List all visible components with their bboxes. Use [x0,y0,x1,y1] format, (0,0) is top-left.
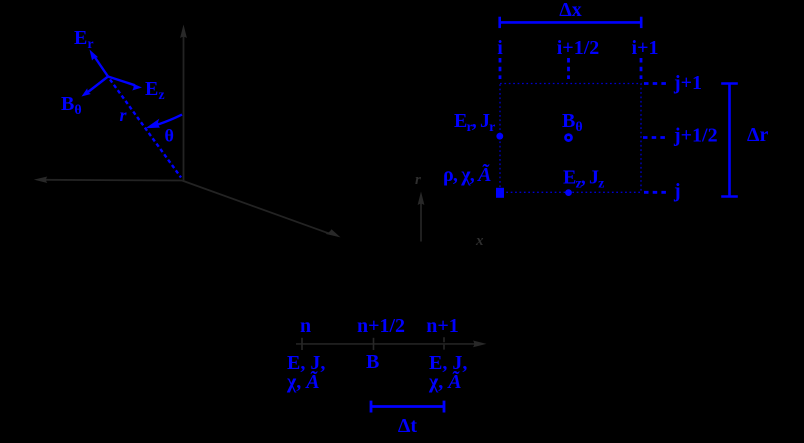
svg-text:n+1: n+1 [426,315,459,337]
svg-text:x: x [475,233,484,249]
y axis (3D frame, diagonal) [182,181,341,238]
z axis (3D frame, vertical) [180,25,187,181]
j+1/2 dashed stub [643,136,669,139]
i dashed stub [499,58,502,79]
j+1 dashed stub [644,82,670,85]
svg-text:Ez, Jz: Ez, Jz [563,167,604,192]
Delta-t dimension line [371,401,444,413]
svg-text:B: B [366,351,379,373]
svg-text:r: r [120,105,128,125]
E_r arrow [90,50,109,77]
j dashed stub [644,191,670,194]
svg-text:n+1/2: n+1/2 [357,315,405,337]
svg-text:j: j [673,180,681,202]
svg-text:χ, Ã: χ, Ã [286,370,320,393]
Yee cell dotted square [500,84,641,193]
svg-text:χ, Ã: χ, Ã [428,370,462,393]
svg-text:i+1: i+1 [632,37,659,59]
svg-text:Er, Jr: Er, Jr [454,110,495,135]
svg-text:n: n [300,315,311,337]
Delta-r dimension line [721,84,738,197]
r radius dashed line [110,80,181,178]
theta angle arc arrow [146,115,183,129]
tick n [301,338,303,350]
B_theta arrow [82,77,109,97]
svg-text:i+1/2: i+1/2 [557,37,600,59]
time axis [296,341,487,348]
x axis (3D frame, left) [34,177,182,184]
E_z, J_z node dot [565,189,572,196]
svg-text:Δx: Δx [559,0,582,21]
svg-text:j+1/2: j+1/2 [673,125,718,147]
tick n+1 [443,337,445,350]
i+1/2 dashed stub [567,58,570,79]
i+1 dashed stub [640,58,643,79]
svg-text:θ: θ [165,126,174,146]
svg-text:i: i [497,37,503,59]
Delta-x dimension line [500,17,642,28]
E_r, J_r node dot [496,133,503,140]
svg-text:Δt: Δt [398,415,418,437]
E_z arrow [108,77,142,91]
svg-text:ρ, χ, Ã: ρ, χ, Ã [443,163,491,186]
tick n+1/2 [373,338,375,350]
svg-text:r: r [415,172,421,188]
svg-text:Δr: Δr [747,124,769,146]
svg-text:j+1: j+1 [673,72,702,94]
B_theta node open circle [566,135,572,141]
r axis (grid frame, vertical) [418,192,425,242]
rho, chi, A-tilde node square [496,188,504,198]
